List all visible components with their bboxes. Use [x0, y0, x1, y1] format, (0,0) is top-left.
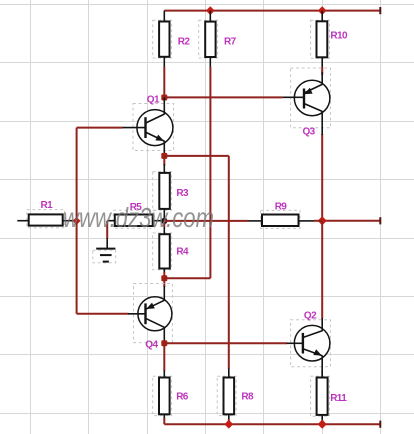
wire Q1 collector to Q3 base: [164, 96, 282, 98]
wire R9 node down to Q2 collector: [321, 221, 323, 319]
svg-text:R10: R10: [330, 31, 348, 42]
junction Q1 collector node: [161, 95, 167, 101]
wire R5 to ground: [106, 221, 108, 239]
wire R8 column vertical: [228, 156, 230, 369]
svg-text:R11: R11: [330, 393, 347, 404]
junction R4 bottom / Q4 emitter node: [161, 275, 167, 281]
wire R2 to Q1 collector: [163, 67, 165, 98]
svg-text:R9: R9: [275, 202, 288, 213]
wire R4 node to R7 column: [164, 277, 210, 279]
junction Q1 emitter node: [161, 153, 167, 159]
transistor Q1: [122, 94, 174, 156]
svg-text:R3: R3: [176, 188, 189, 199]
wire Q4 collector to Q2 base: [164, 342, 287, 344]
resistor R8: [217, 369, 254, 420]
svg-text:R6: R6: [176, 392, 189, 403]
svg-text:R7: R7: [224, 37, 237, 48]
resistor R10: [311, 11, 348, 68]
resistor R3: [153, 164, 189, 221]
wire Q4 emitter stub: [163, 278, 165, 287]
svg-text:Q2: Q2: [304, 311, 317, 322]
svg-text:Q4: Q4: [145, 339, 158, 350]
wire node to R9: [164, 220, 248, 222]
svg-text:R2: R2: [178, 37, 191, 48]
junction top rail / R7: [206, 6, 215, 15]
wire input to Q4 base: [77, 313, 129, 315]
wire R4 bottom: [163, 272, 165, 278]
wire bottom rail: [164, 418, 380, 428]
junction R9 / output node: [318, 216, 327, 225]
junction top rail / R10: [318, 6, 327, 15]
resistor R9: [248, 202, 322, 229]
wire Q1 emitter to R8 column: [164, 155, 229, 157]
resistor R11: [311, 370, 348, 421]
resistor R5: [107, 202, 164, 228]
svg-text:www.dz3w.com: www.dz3w.com: [63, 202, 214, 233]
junction R3/R4/R5/R9 node: [161, 218, 167, 224]
wire Q3 collector down to R9 node: [321, 134, 323, 221]
junction bottom rail / R8: [224, 420, 233, 429]
wire R7 column vertical: [209, 67, 211, 278]
junction Q4 collector node: [161, 340, 167, 346]
svg-text:R8: R8: [241, 392, 254, 403]
wire input vertical: [76, 128, 78, 314]
wire node to R4: [163, 221, 165, 227]
svg-text:Q3: Q3: [303, 127, 316, 138]
ground: [93, 239, 116, 263]
wire R9 node to right edge: [322, 217, 380, 224]
svg-text:R4: R4: [176, 247, 189, 258]
resistor R2: [153, 11, 191, 68]
wire Q1 emitter to R3: [163, 156, 165, 166]
wire input to Q1 base: [77, 127, 123, 129]
transistor Q2: [287, 311, 331, 378]
resistor R1: [17, 200, 76, 228]
svg-text:Q1: Q1: [147, 94, 160, 105]
svg-text:R1: R1: [41, 200, 54, 211]
wire top rail: [164, 7, 380, 14]
wire R10 to Q3 emitter: [321, 67, 323, 75]
wire Q4 collector to R6: [163, 343, 165, 371]
resistor R6: [153, 371, 189, 419]
junction R1 / input node: [73, 217, 81, 225]
junction bottom rail / R11: [318, 420, 327, 429]
transistor Q4: [128, 284, 172, 351]
resistor R7: [199, 11, 237, 68]
transistor Q3: [283, 68, 331, 138]
resistor R4: [153, 227, 189, 273]
